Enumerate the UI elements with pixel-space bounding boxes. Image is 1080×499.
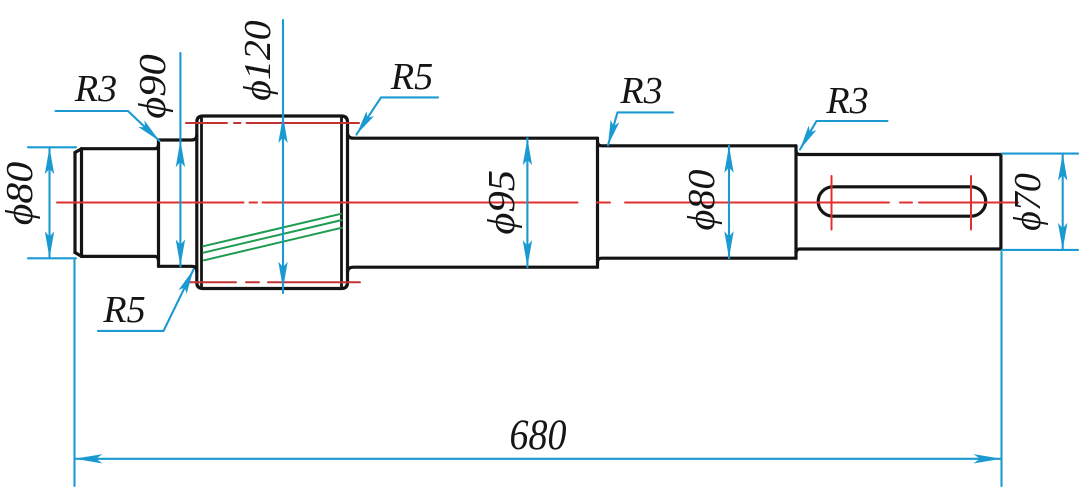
blue dimension phi70 — [1002, 154, 1078, 250]
keyway slot — [818, 187, 986, 216]
svg-text:ϕ90: ϕ90 — [131, 54, 173, 119]
svg-text:R3: R3 — [619, 70, 662, 112]
blue dimension phi120 — [282, 20, 284, 293]
shoulder face phi80/phi70 — [794, 146, 797, 258]
blue dimension phi80 right — [728, 146, 730, 258]
svg-text:680: 680 — [510, 411, 567, 459]
shaft section phi70 edges and right end face — [796, 151, 1001, 254]
gear rim chamfer line right — [340, 118, 343, 288]
red gear pitch line top — [186, 122, 359, 124]
svg-text:ϕ80: ϕ80 — [0, 162, 41, 225]
blue dimension phi90 — [179, 53, 181, 266]
shoulder face phi95/phi80 — [596, 138, 599, 267]
svg-text:R5: R5 — [390, 56, 433, 98]
svg-text:ϕ95: ϕ95 — [480, 170, 522, 235]
main red center line — [57, 202, 1018, 204]
shaft section phi95 edges with fillets — [348, 133, 598, 272]
leader R3 middle — [608, 112, 673, 145]
svg-text:ϕ120: ϕ120 — [237, 20, 279, 100]
leader R3 left — [56, 111, 160, 141]
shaft section phi120 gear blank rounded rectangle — [197, 116, 348, 289]
red keyway cross center lines — [832, 176, 972, 230]
blue dimension phi80 left: extension lines — [28, 147, 76, 258]
shaft section phi80 left top/bottom edges with fillet into shoulder — [82, 145, 159, 261]
leader R5 top — [357, 97, 439, 134]
blue dimension phi95 — [526, 138, 528, 267]
shoulder face phi80/phi90 — [157, 140, 160, 266]
leader R3 right — [800, 121, 888, 150]
shaft outline: left end face with chamfer — [75, 149, 82, 257]
svg-text:R3: R3 — [825, 80, 868, 122]
svg-text:ϕ80: ϕ80 — [681, 169, 723, 231]
red gear pitch line bottom — [188, 281, 360, 283]
shaft section phi90 edges with fillet into gear face — [159, 135, 197, 271]
blue dimension 680: extension lines — [75, 252, 1002, 486]
svg-text:R3: R3 — [74, 68, 117, 110]
leader R5 bottom — [98, 270, 194, 331]
shaft section phi80 right edges with fillets — [598, 142, 797, 262]
gear rim chamfer line left — [200, 118, 203, 288]
svg-text:R5: R5 — [102, 289, 145, 331]
arrows phi80 left — [45, 147, 54, 174]
green helical teeth direction lines — [203, 214, 342, 260]
svg-text:ϕ70: ϕ70 — [1007, 173, 1049, 231]
